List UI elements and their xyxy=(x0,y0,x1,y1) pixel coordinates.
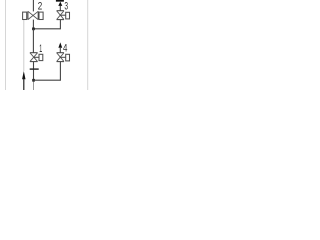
right frame line xyxy=(87,0,89,90)
wire: valve V2 top stem xyxy=(32,0,34,11)
flow arrow at valve V4 inlet xyxy=(58,42,62,47)
valve V1 actuator link xyxy=(34,56,39,58)
node: vent bar above valve V3 xyxy=(56,0,64,2)
valve V2 bowtie xyxy=(28,11,38,19)
valve V3 hourglass xyxy=(57,11,64,20)
valve V3 actuator box xyxy=(66,12,70,19)
wire: branch to valve V3 xyxy=(33,28,60,30)
valve V4 hourglass xyxy=(57,53,64,62)
valve V2 left port box xyxy=(23,12,27,19)
pipe from valve V2 left port down xyxy=(23,20,25,71)
wire: valve V4 bottom stem xyxy=(59,62,61,81)
valve V3 actuator link xyxy=(60,14,65,16)
junction B xyxy=(32,79,35,82)
valve V4 actuator link xyxy=(60,56,65,58)
flow arrow into vent (valve V3) xyxy=(58,2,62,6)
wire: bottom line to valve V4 xyxy=(34,79,61,81)
wire: valve V3 top stem xyxy=(59,6,61,11)
pipe below junction B xyxy=(33,80,35,90)
wire: valve V4 top stem xyxy=(59,47,61,53)
wire: main line down to valve V1 xyxy=(32,29,34,53)
svg-text:1: 1 xyxy=(39,43,42,55)
svg-text:3: 3 xyxy=(64,1,68,13)
wire: valve V2 bottom stem xyxy=(32,20,34,29)
flow arrow on left feed line xyxy=(22,71,25,79)
wire: valve V3 bottom stem xyxy=(59,20,61,30)
svg-text:2: 2 xyxy=(38,1,43,13)
valve V1 actuator box xyxy=(39,54,43,60)
valve V4 actuator box xyxy=(66,54,70,61)
wire: left feed line tail xyxy=(23,79,25,91)
valve V2 right port box xyxy=(39,12,43,19)
left frame line xyxy=(5,0,7,90)
wire: valve V1 bottom stem xyxy=(33,62,35,81)
node: end-cap bar below valve V1 xyxy=(30,68,39,70)
valve V1 hourglass xyxy=(30,53,38,62)
junction A xyxy=(32,28,35,31)
